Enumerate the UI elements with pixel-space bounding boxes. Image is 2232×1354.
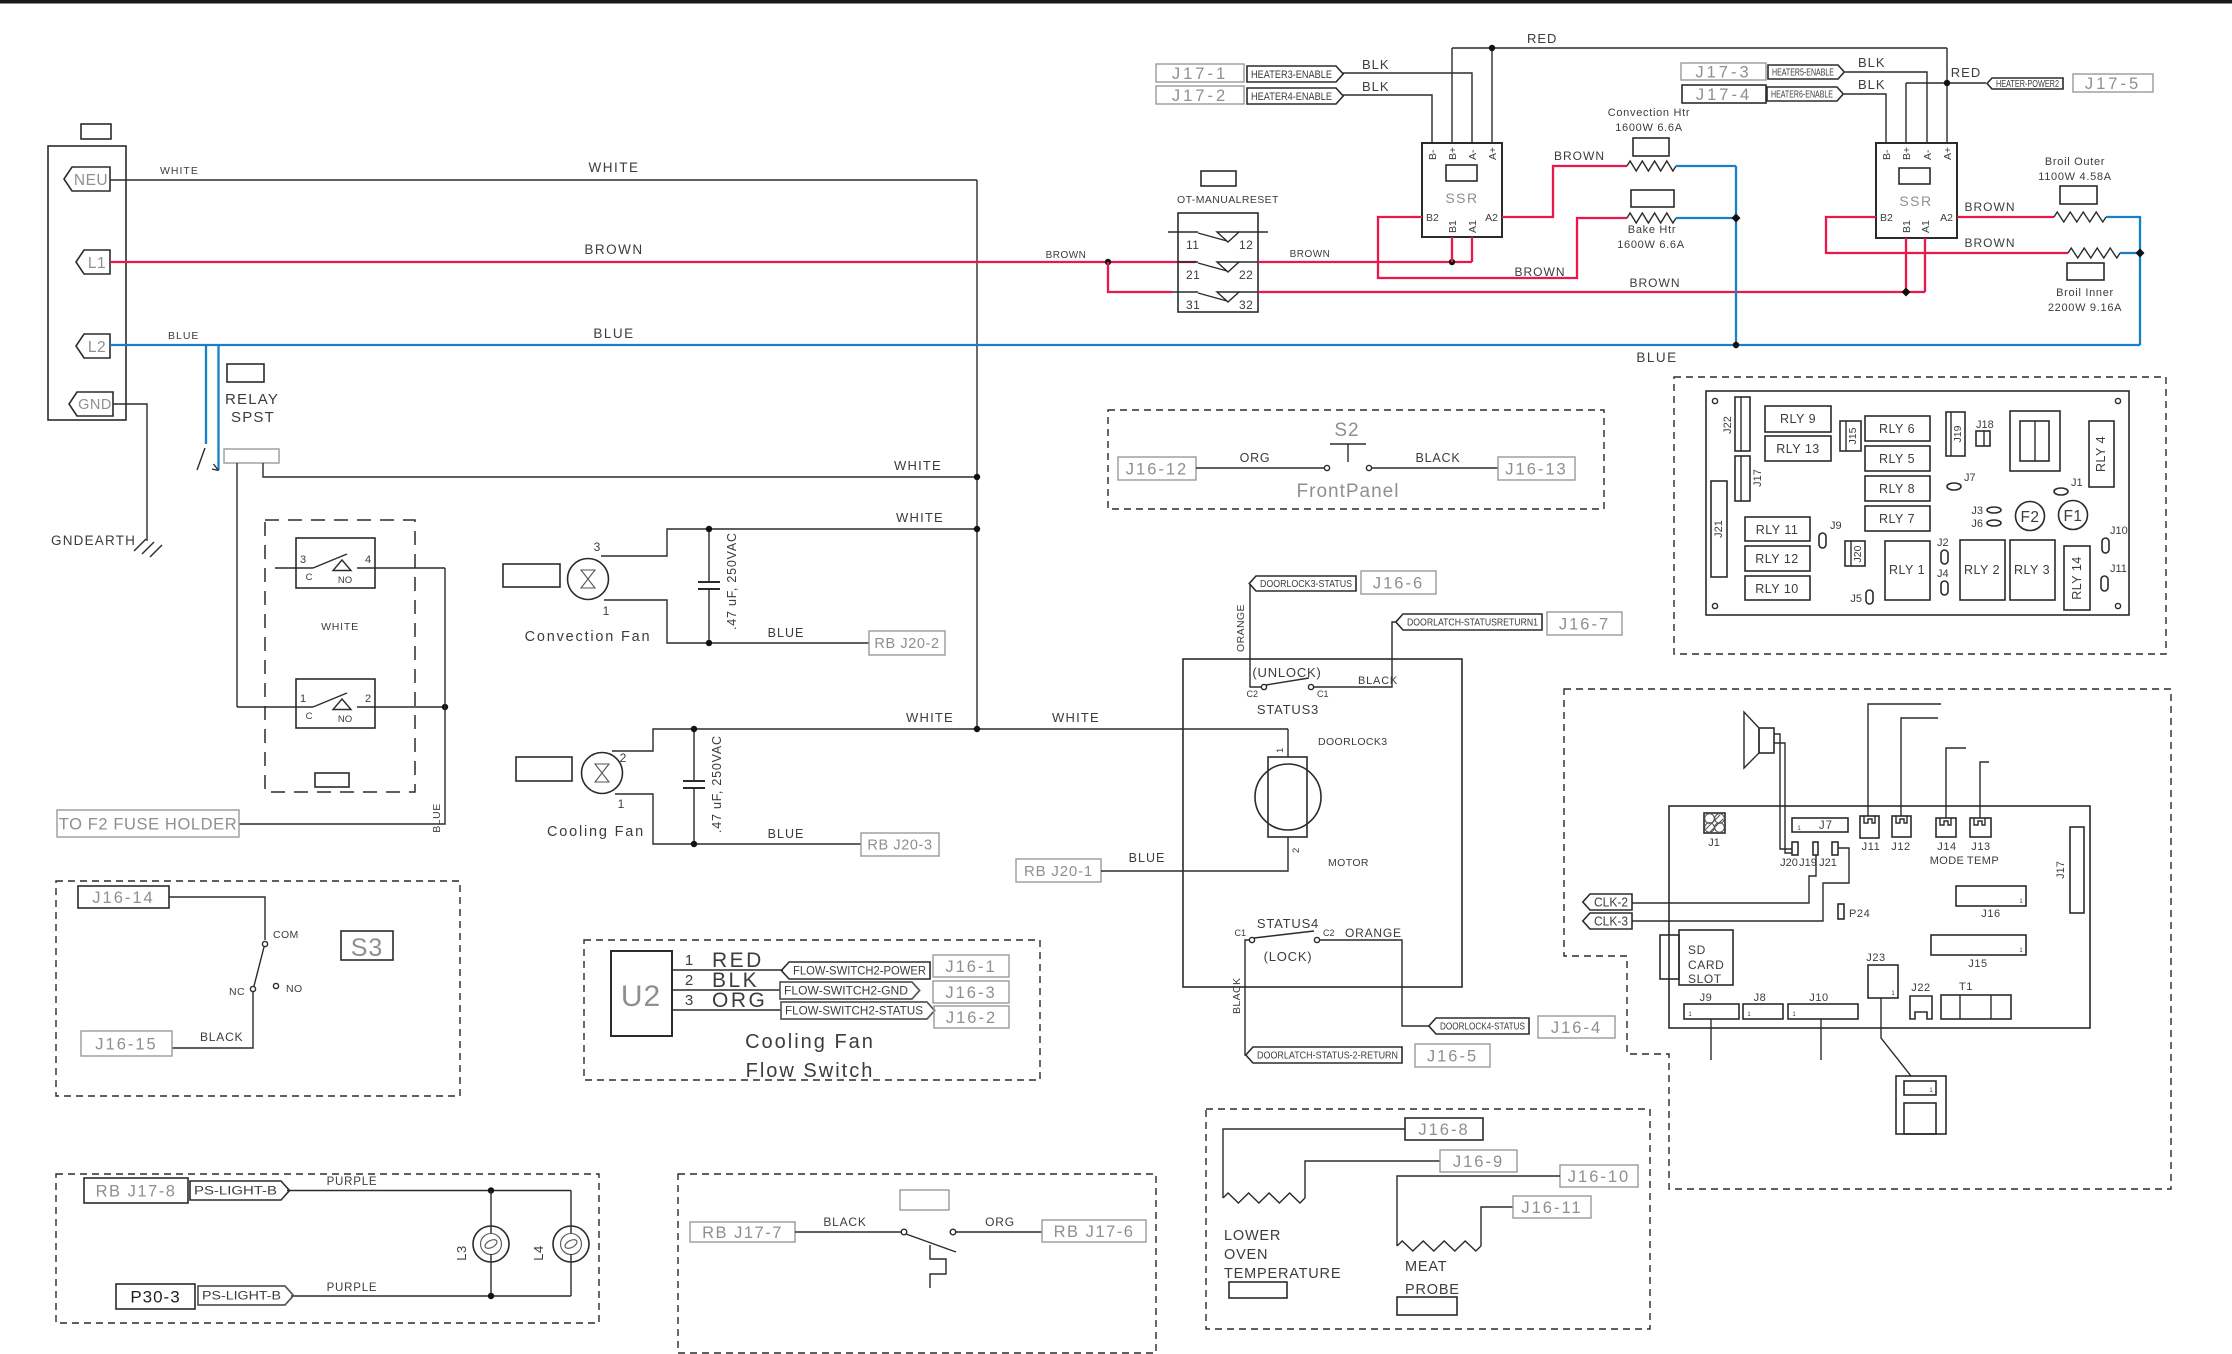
svg-text:RB J20-3: RB J20-3 (867, 838, 932, 854)
svg-text:J16-9: J16-9 (1453, 1153, 1504, 1171)
svg-text:1: 1 (685, 952, 693, 969)
svg-text:Flow Switch: Flow Switch (746, 1060, 875, 1082)
wire cooling fan pin1 (615, 794, 861, 844)
svg-text:1600W 6.6A: 1600W 6.6A (1617, 239, 1685, 251)
wire ORANGE status4 (1320, 940, 1430, 1026)
svg-text:A1: A1 (1920, 220, 1932, 233)
relay RLY 6 (1865, 416, 1930, 441)
junction door switch (442, 704, 448, 710)
svg-text:TEMP: TEMP (1967, 855, 1999, 867)
svg-text:J15: J15 (1847, 427, 1859, 444)
svg-text:BROWN: BROWN (1046, 250, 1087, 261)
cooling fan label box (516, 757, 572, 781)
svg-text:J21: J21 (1713, 520, 1725, 538)
wire J16-14 to COM (169, 897, 265, 940)
svg-text:A2: A2 (1485, 212, 1498, 224)
label J16-10 (1560, 1165, 1638, 1187)
svg-text:BROWN: BROWN (1965, 236, 2016, 250)
jumper J7 rb (1947, 483, 1961, 490)
heater Broil Inner 2200W (2068, 248, 2120, 258)
svg-text:J14: J14 (1937, 841, 1957, 853)
door switch S lower (296, 679, 375, 728)
svg-text:BROWN: BROWN (1965, 200, 2016, 214)
wire WHITE convection fan (601, 529, 977, 556)
relay RLY 8 (1865, 476, 1930, 501)
terminal GND (69, 392, 113, 416)
speaker SP1 (1744, 712, 1759, 768)
svg-text:11: 11 (1186, 238, 1199, 252)
label J16-14 (78, 886, 169, 908)
svg-text:2: 2 (1291, 848, 1302, 853)
connector J13 cb (1970, 818, 1991, 837)
oven lights dashed box (56, 1174, 599, 1323)
wire J13 stub (1980, 762, 1989, 818)
relay contact blue lead B (217, 345, 219, 470)
wire BLK heater6 (1844, 94, 1886, 143)
junction blue main (1733, 342, 1739, 348)
svg-text:PROBE: PROBE (1405, 1282, 1460, 1298)
junction brown L1 (1105, 259, 1111, 265)
svg-text:WHITE: WHITE (321, 621, 359, 633)
svg-text:HEATER5-ENABLE: HEATER5-ENABLE (1772, 68, 1834, 79)
net flag HEATER3-ENABLE (1247, 66, 1343, 82)
svg-text:BLUE: BLUE (431, 803, 443, 832)
svg-text:NO: NO (338, 714, 352, 725)
OT contact 31-32 (1172, 291, 1198, 293)
net flag DOORLATCH-STATUS-2-RETURN (1246, 1047, 1402, 1063)
svg-text:TO F2 FUSE HOLDER: TO F2 FUSE HOLDER (59, 815, 238, 833)
svg-text:RLY 10: RLY 10 (1755, 582, 1799, 596)
svg-text:BLK: BLK (1858, 55, 1886, 70)
svg-text:RELAY: RELAY (225, 391, 279, 408)
svg-text:BLUE: BLUE (768, 827, 805, 841)
svg-text:C1: C1 (1317, 689, 1329, 699)
svg-text:S2: S2 (1334, 420, 1359, 441)
switch thermal contacts (901, 1229, 907, 1235)
svg-text:B2: B2 (1426, 212, 1439, 224)
label J16-12 (1118, 457, 1196, 480)
svg-text:J19: J19 (1799, 857, 1817, 869)
svg-text:A-: A- (1467, 149, 1479, 160)
svg-text:BLACK: BLACK (1231, 978, 1243, 1014)
svg-text:A+: A+ (1487, 147, 1499, 160)
svg-text:RLY 13: RLY 13 (1776, 442, 1820, 456)
svg-text:RLY 11: RLY 11 (1756, 523, 1799, 537)
label J16-13 (1498, 457, 1575, 480)
wire BLUE from L2 (110, 344, 2140, 346)
svg-text:U2: U2 (621, 980, 661, 1013)
svg-text:BROWN: BROWN (1290, 249, 1331, 260)
wire brown SSR1 A2 to Convection (1502, 166, 1627, 217)
svg-text:PS-LIGHT-B: PS-LIGHT-B (202, 1291, 281, 1303)
svg-text:1: 1 (300, 693, 306, 705)
svg-text:Cooling Fan: Cooling Fan (745, 1031, 875, 1053)
svg-text:J13: J13 (1971, 841, 1991, 853)
svg-text:J16: J16 (1981, 908, 2001, 920)
net flag HEATER6-ENABLE (1767, 87, 1843, 101)
svg-text:J16-11: J16-11 (1521, 1199, 1582, 1217)
svg-text:J16-14: J16-14 (92, 889, 154, 907)
svg-text:(UNLOCK): (UNLOCK) (1252, 665, 1321, 680)
svg-text:J2: J2 (1937, 537, 1949, 549)
svg-text:4: 4 (365, 554, 371, 566)
svg-text:ORG: ORG (1240, 451, 1271, 465)
relay RLY 13 (1765, 436, 1831, 461)
svg-text:CLK-3: CLK-3 (1594, 915, 1628, 929)
net flag FLOW-SWITCH2-STATUS (781, 1002, 935, 1019)
wire BLACK s2 (1372, 467, 1498, 469)
junction lamp top (488, 1187, 494, 1193)
svg-text:P24: P24 (1849, 908, 1870, 920)
jumper J11 rb (2101, 576, 2108, 591)
capacitor C-cool .47uF (693, 729, 695, 781)
wire WHITE cooling fan (612, 729, 1288, 751)
svg-text:B+: B+ (1447, 147, 1459, 160)
jumper J2 rb (1941, 550, 1948, 564)
label RB J17-8 (84, 1178, 188, 1203)
svg-text:J9: J9 (1700, 992, 1713, 1004)
jumper J3 rb (1987, 507, 2001, 513)
part box lower oven temp (1229, 1282, 1287, 1298)
wire BLUE doorlock motor (1101, 837, 1288, 871)
svg-text:J20: J20 (1780, 857, 1798, 869)
jumper J4 rb (1941, 581, 1948, 595)
relay contact blue lead A (205, 345, 207, 444)
jumper J6 rb (1987, 520, 2001, 526)
wire U2 pin2 BLK (672, 989, 780, 991)
wire BLUE to F2 fuse holder (239, 568, 445, 824)
connector J15 cb (1931, 935, 2026, 955)
lamp L3 (490, 1191, 492, 1235)
svg-text:(LOCK): (LOCK) (1264, 949, 1313, 964)
label P30-3 (116, 1284, 195, 1309)
junction white conv (974, 526, 980, 532)
wire U2 pin1 RED (672, 969, 783, 971)
svg-text:B+: B+ (1901, 147, 1913, 160)
svg-text:J20: J20 (1852, 545, 1864, 562)
switch S3 contacts (262, 941, 267, 946)
svg-text:DOORLOCK3-STATUS: DOORLOCK3-STATUS (1260, 579, 1352, 590)
svg-text:A+: A+ (1942, 147, 1954, 160)
svg-text:Bake Htr: Bake Htr (1628, 224, 1676, 236)
wire speaker to J20 (1774, 734, 1792, 849)
svg-text:J16-13: J16-13 (1505, 460, 1567, 478)
svg-text:WHITE: WHITE (894, 458, 942, 473)
transformer rb (2010, 411, 2060, 471)
label RB J20-2 (869, 631, 945, 655)
svg-text:NC: NC (229, 986, 245, 998)
relay RLY 11 (1745, 517, 1810, 541)
svg-text:BLACK: BLACK (200, 1030, 243, 1044)
svg-text:BLACK: BLACK (823, 1215, 866, 1229)
svg-text:C: C (306, 711, 313, 722)
connector J16 cb (1956, 886, 2026, 906)
terminal L1 (76, 250, 110, 274)
svg-text:J6: J6 (1971, 518, 1983, 530)
fuse F1 (2059, 501, 2088, 530)
junction white cooling (974, 726, 980, 732)
svg-text:A2: A2 (1940, 212, 1953, 224)
door switch S upper (296, 538, 375, 588)
svg-text:J10: J10 (1809, 992, 1829, 1004)
connector J12 cb (1892, 816, 1911, 837)
svg-text:DOORLOCK3: DOORLOCK3 (1318, 736, 1388, 748)
relay RLY 12 (1745, 546, 1810, 571)
svg-text:J1: J1 (2071, 477, 2083, 489)
svg-text:J17-4: J17-4 (1696, 86, 1752, 104)
relay coil box (224, 449, 279, 463)
svg-text:FLOW-SWITCH2-POWER: FLOW-SWITCH2-POWER (793, 966, 926, 978)
svg-text:J3: J3 (1971, 505, 1983, 517)
svg-text:J17-1: J17-1 (1172, 65, 1228, 83)
connector J11 cb (1860, 816, 1879, 838)
svg-text:1: 1 (603, 604, 610, 618)
svg-text:1600W 6.6A: 1600W 6.6A (1615, 122, 1683, 134)
svg-text:WHITE: WHITE (906, 710, 954, 725)
wire CLK-2 (1632, 855, 1816, 903)
svg-text:FLOW-SWITCH2-STATUS: FLOW-SWITCH2-STATUS (785, 1006, 923, 1018)
svg-text:BLK: BLK (1362, 57, 1390, 72)
svg-text:T1: T1 (1959, 981, 1973, 993)
wire ORANGE status3 (1250, 584, 1261, 687)
relay RLY 9 (1765, 406, 1831, 432)
label RB J17-6 (1042, 1220, 1146, 1242)
svg-text:J16-10: J16-10 (1568, 1168, 1630, 1186)
wire J23 to sd icon (1881, 998, 1911, 1076)
svg-text:S3: S3 (351, 934, 384, 962)
svg-text:BLACK: BLACK (1416, 451, 1461, 465)
svg-text:RLY 6: RLY 6 (1879, 422, 1915, 436)
sd card icon (1896, 1076, 1946, 1134)
relay RLY 5 (1865, 446, 1930, 471)
svg-text:Broil Inner: Broil Inner (2056, 287, 2114, 299)
pad J21 cb (1832, 842, 1838, 855)
label J16-3 (933, 981, 1009, 1003)
lamp L4 (570, 1191, 572, 1235)
front panel dashed box (1108, 410, 1604, 509)
svg-text:BROWN: BROWN (1554, 149, 1605, 163)
svg-text:J7: J7 (1964, 472, 1976, 484)
svg-text:J16-4: J16-4 (1551, 1019, 1602, 1037)
svg-text:P30-3: P30-3 (130, 1288, 180, 1307)
connector J20 rb (1845, 541, 1865, 566)
switch STATUS3 UNLOCK (1261, 684, 1266, 689)
svg-text:ORANGE: ORANGE (1345, 926, 1402, 940)
relay RLY 3 (2010, 540, 2055, 600)
svg-text:J22: J22 (1722, 416, 1734, 434)
label J17-4 (1682, 85, 1766, 103)
svg-text:PS-LIGHT-B: PS-LIGHT-B (194, 1186, 277, 1198)
svg-text:1: 1 (618, 797, 625, 811)
svg-text:B1: B1 (1447, 220, 1459, 233)
svg-text:GND: GND (78, 397, 112, 413)
svg-text:MEAT: MEAT (1405, 1259, 1447, 1275)
svg-text:C: C (306, 572, 313, 583)
svg-text:CARD: CARD (1688, 958, 1724, 972)
relay RLY 14 (2064, 546, 2090, 610)
label J16-8 (1405, 1118, 1483, 1140)
connector J17 cb (2070, 827, 2084, 913)
svg-text:Broil Outer: Broil Outer (2045, 156, 2105, 168)
svg-text:B2: B2 (1880, 212, 1893, 224)
label J16-7 (1547, 612, 1622, 635)
junction SSR1 B1 (1449, 259, 1455, 265)
svg-text:B-: B- (1427, 149, 1439, 160)
svg-text:3: 3 (685, 992, 693, 1009)
svg-text:J12: J12 (1891, 841, 1911, 853)
net flag FLOW-SWITCH2-GND (780, 982, 920, 999)
svg-text:MODE: MODE (1930, 855, 1965, 867)
svg-text:B1: B1 (1901, 220, 1913, 233)
wire GND to earth (113, 404, 147, 541)
junction SSR2 B1 (1902, 288, 1911, 297)
ground earth symbol (134, 539, 146, 551)
connector J19 rb (1946, 412, 1965, 456)
label J17-2 (1156, 86, 1244, 104)
junction red A+ (1489, 45, 1495, 51)
svg-text:31: 31 (1186, 298, 1200, 312)
label J16-11 (1513, 1196, 1591, 1218)
junction red ssr2 (1944, 80, 1950, 86)
svg-text:J16-3: J16-3 (945, 984, 996, 1002)
svg-text:A1: A1 (1467, 220, 1479, 233)
part box blank (900, 1190, 949, 1210)
part box S3 (341, 931, 393, 960)
svg-text:3: 3 (594, 540, 601, 554)
label J17-1 (1156, 64, 1244, 82)
power inlet connector P1 (48, 146, 126, 420)
wire RED heater power (1946, 48, 1948, 143)
OT contact 21-22 (1178, 261, 1198, 263)
svg-text:PURPLE: PURPLE (327, 1176, 378, 1188)
net flag DOORLOCK3-STATUS (1249, 576, 1356, 591)
label J16-4 (1538, 1016, 1615, 1038)
svg-text:Cooling Fan: Cooling Fan (547, 824, 645, 840)
svg-text:1: 1 (1275, 748, 1286, 753)
wire SSR1 B1 A1 (1451, 237, 1453, 262)
part box meat probe (1397, 1297, 1457, 1315)
wire J16-11 to meat probe (1481, 1207, 1513, 1246)
svg-text:PURPLE: PURPLE (327, 1282, 378, 1294)
svg-text:FLOW-SWITCH2-GND: FLOW-SWITCH2-GND (784, 986, 908, 998)
relay RLY 7 (1865, 506, 1930, 531)
svg-text:DOORLATCH-STATUSRETURN1: DOORLATCH-STATUSRETURN1 (1407, 618, 1538, 629)
wire brown OT22 to SSR1 (1258, 261, 1472, 263)
svg-text:BLUE: BLUE (168, 330, 199, 342)
svg-text:J16-6: J16-6 (1373, 574, 1424, 592)
wire brown SSR1 B2 to Bake (1378, 217, 1627, 278)
wire blue bake heater (1676, 217, 1736, 219)
svg-text:L4: L4 (531, 1245, 546, 1260)
svg-text:J1: J1 (1708, 837, 1720, 849)
svg-text:C1: C1 (1234, 928, 1246, 938)
svg-text:J10: J10 (2110, 525, 2128, 537)
svg-text:SD: SD (1688, 943, 1706, 957)
svg-text:J17-5: J17-5 (2085, 75, 2141, 93)
wire blue broil inner (2120, 252, 2140, 254)
junction blue bake (1732, 214, 1741, 223)
svg-text:WHITE: WHITE (160, 165, 199, 177)
wire J16-8 to RTD (1223, 1129, 1405, 1198)
relay board pcb (1706, 391, 2129, 615)
wire PURPLE top (287, 1190, 571, 1192)
svg-text:J21: J21 (1819, 857, 1837, 869)
svg-text:BLUE: BLUE (1129, 851, 1166, 865)
svg-text:WHITE: WHITE (589, 160, 640, 175)
relay RLY 2 (1960, 540, 2005, 600)
svg-text:RLY 1: RLY 1 (1889, 563, 1925, 577)
wire J16-9 to RTD (1305, 1161, 1440, 1198)
svg-text:NEU: NEU (74, 172, 108, 189)
wire convection fan pin1 (604, 600, 869, 643)
svg-text:C2: C2 (1323, 928, 1335, 938)
wire BLK heater4 (1343, 95, 1432, 143)
svg-text:2200W 9.16A: 2200W 9.16A (2048, 302, 2122, 314)
wire ORG rbj17-6 (955, 1231, 1042, 1233)
svg-text:OVEN: OVEN (1224, 1247, 1268, 1263)
svg-text:RB J20-1: RB J20-1 (1024, 863, 1093, 880)
svg-text:ORANGE: ORANGE (1235, 604, 1247, 652)
svg-text:BROWN: BROWN (584, 242, 643, 257)
svg-text:C2: C2 (1246, 689, 1258, 699)
fuse F2 (2016, 502, 2045, 531)
jumper J10 rb (2102, 538, 2109, 553)
svg-text:J11: J11 (2110, 563, 2127, 575)
net flag FLOW-SWITCH2-POWER (781, 962, 930, 979)
svg-text:RB J17-8: RB J17-8 (96, 1182, 177, 1200)
svg-text:LOWER: LOWER (1224, 1228, 1281, 1244)
label J17-3 (1681, 63, 1766, 80)
S3 switch dashed box (56, 881, 460, 1096)
svg-text:J16-2: J16-2 (946, 1009, 997, 1027)
svg-text:F1: F1 (2063, 508, 2082, 525)
wire J10 stub (1820, 1019, 1822, 1060)
wire WHITE from NEU (110, 179, 977, 181)
wire brown OT32 to SSR2 (1258, 291, 1925, 293)
connector J21 rb (1711, 481, 1727, 577)
relay RELAY-SPST label box (227, 364, 264, 382)
svg-text:RED: RED (1527, 31, 1557, 46)
OT contact 11-12 (1168, 231, 1198, 233)
svg-text:3: 3 (300, 554, 306, 566)
svg-text:RLY 8: RLY 8 (1879, 482, 1915, 496)
net flag HEATER-POWER2 (1987, 78, 2063, 89)
terminal L2 (76, 334, 110, 358)
svg-text:STATUS4: STATUS4 (1257, 916, 1319, 931)
wire SSR2 B1 A1 (1905, 238, 1907, 292)
wire RED ssr supply (1452, 47, 1947, 49)
wire BLK heater3 (1343, 73, 1472, 143)
wire blue convection heater (1676, 165, 1736, 167)
svg-text:HEATER4-ENABLE: HEATER4-ENABLE (1251, 91, 1332, 103)
svg-text:Convection Htr: Convection Htr (1608, 107, 1691, 119)
svg-text:CLK-2: CLK-2 (1594, 896, 1628, 910)
terminal NEU (64, 167, 110, 191)
net flag PS-LIGHT-B top (190, 1181, 290, 1200)
connector J17 rb (1735, 456, 1750, 501)
connector J14 cb (1936, 818, 1956, 837)
flow switch dashed box (584, 940, 1040, 1080)
label RB J20-1 (1016, 859, 1101, 882)
svg-text:RLY 2: RLY 2 (1964, 563, 2000, 577)
svg-text:BLK: BLK (1362, 79, 1390, 94)
svg-text:MOTOR: MOTOR (1328, 857, 1369, 869)
net flag HEATER5-ENABLE (1768, 65, 1844, 79)
svg-text:B-: B- (1881, 149, 1893, 160)
svg-text:32: 32 (1239, 298, 1253, 312)
svg-text:J16-12: J16-12 (1126, 460, 1188, 478)
svg-text:J17-3: J17-3 (1695, 63, 1751, 81)
